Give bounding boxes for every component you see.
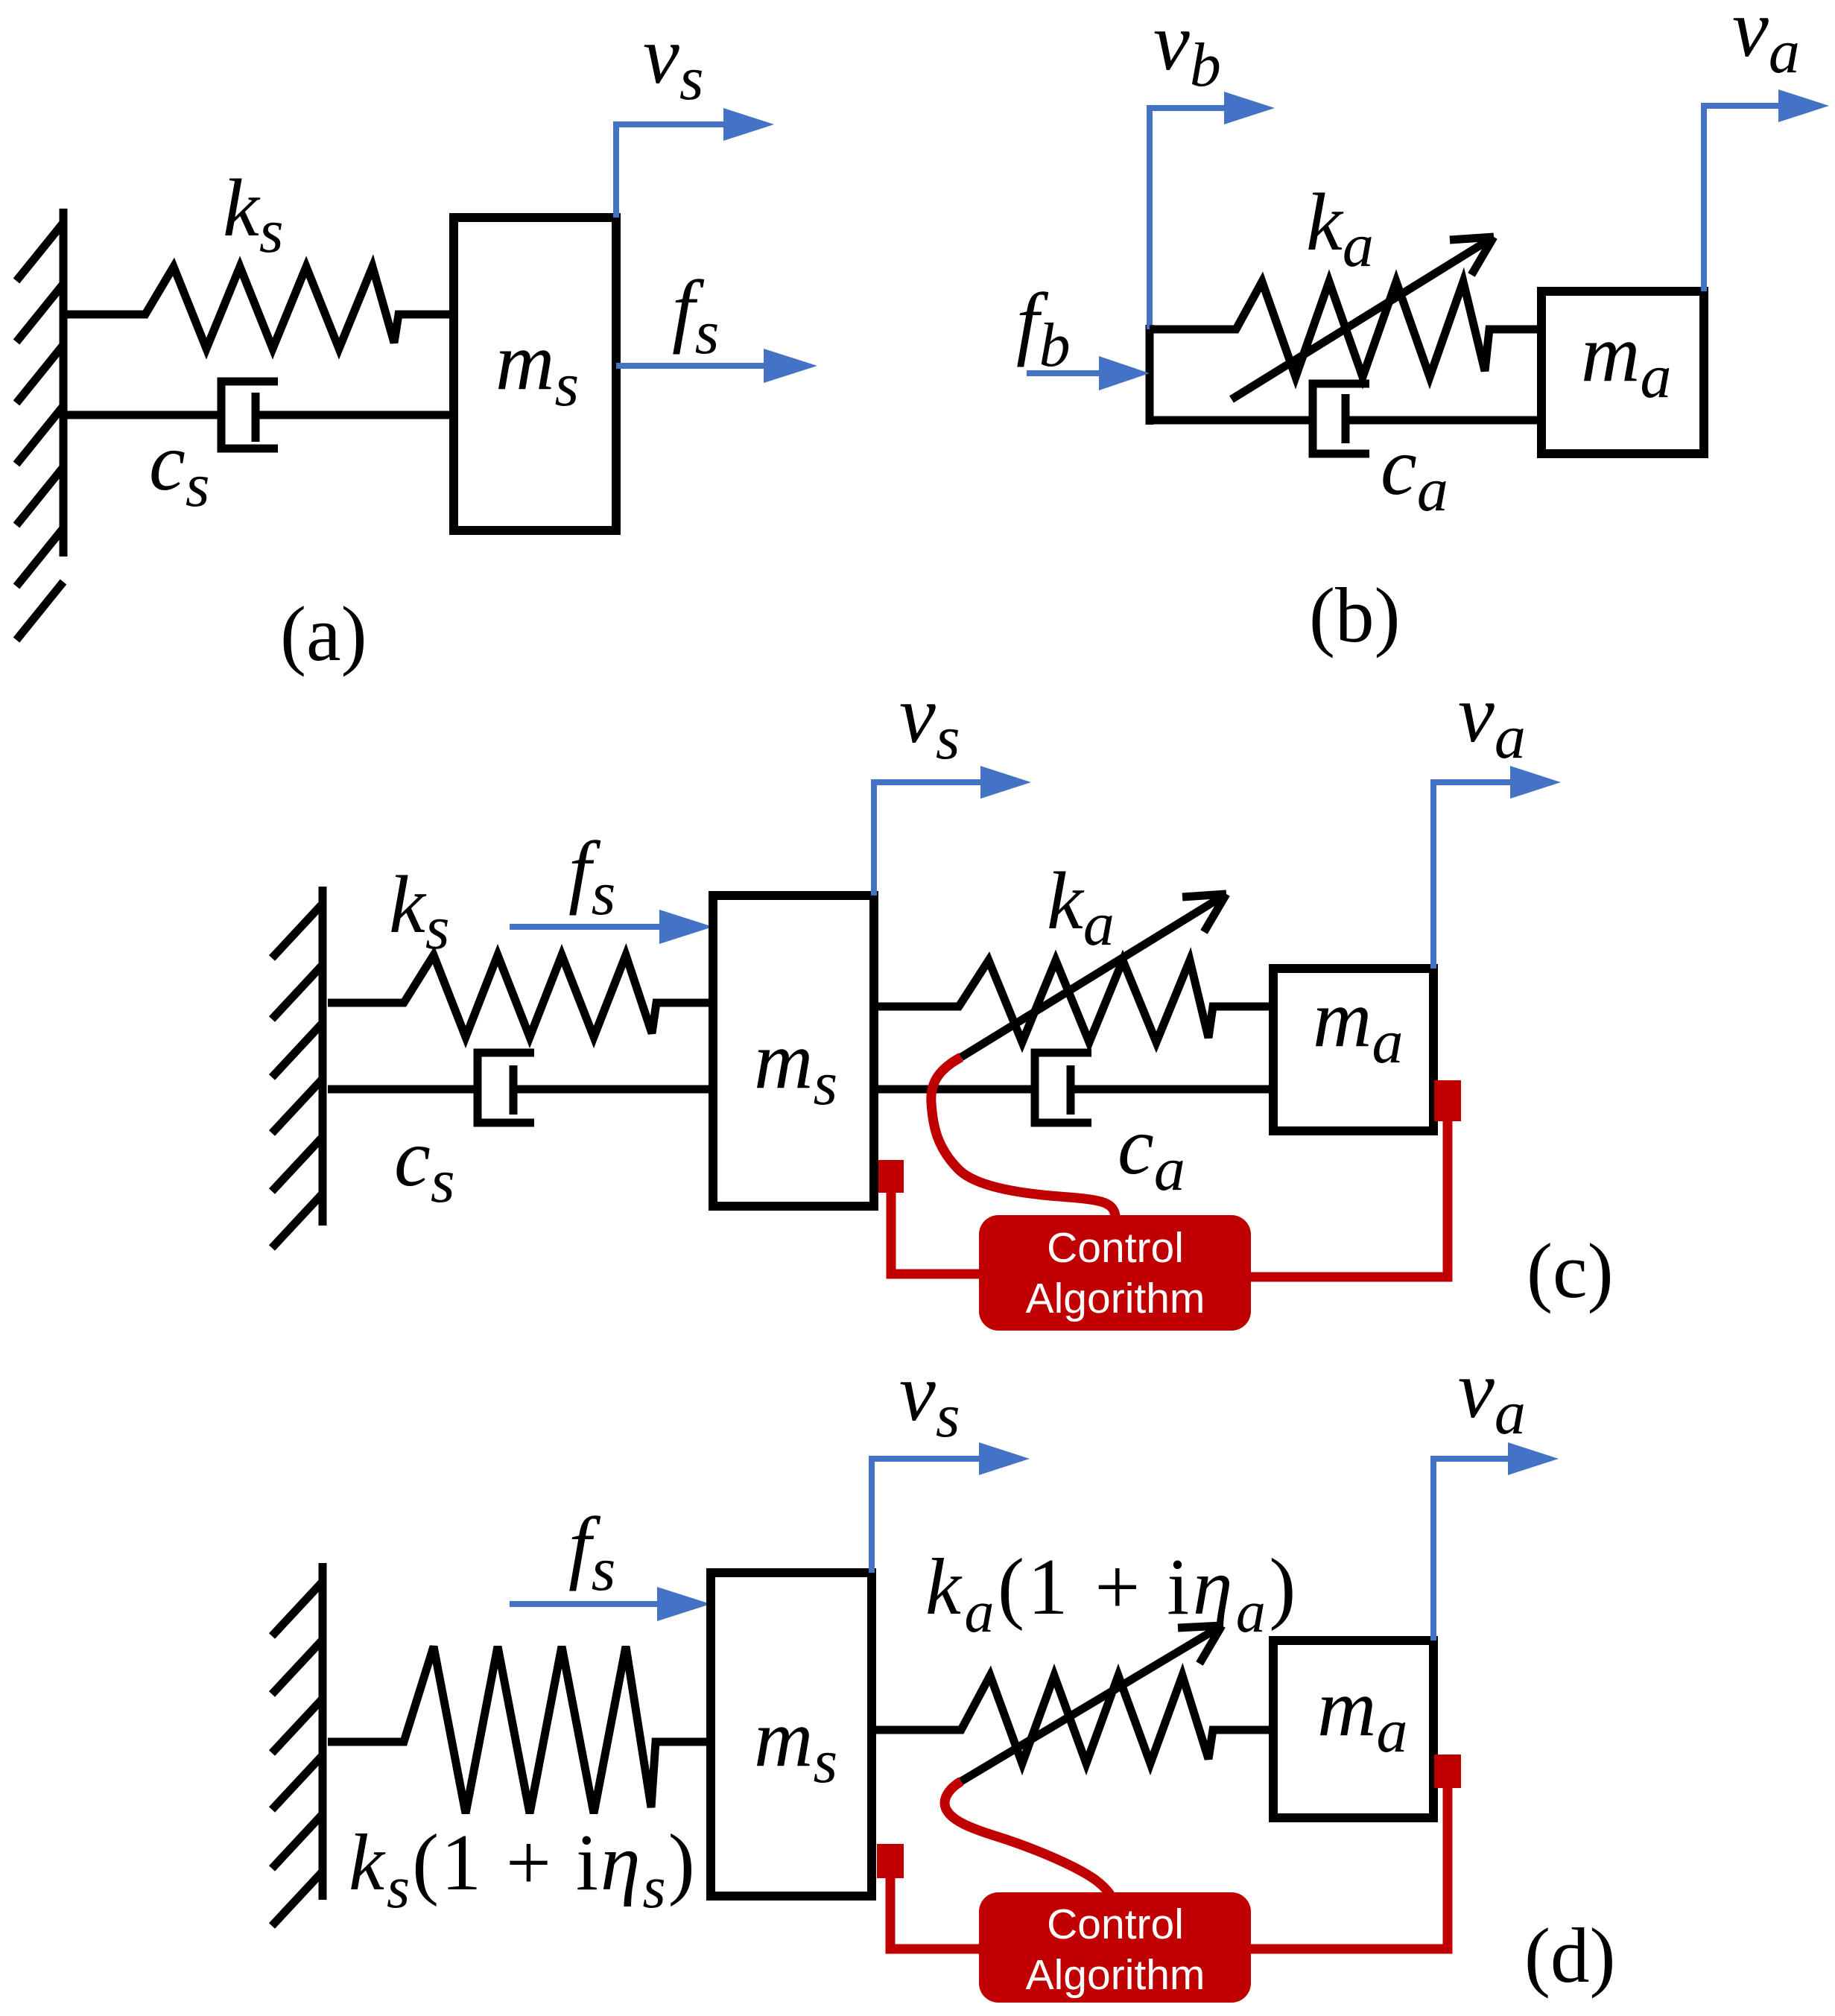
arrow fs (a) bbox=[616, 264, 817, 383]
controller box (d) bbox=[979, 1892, 1251, 2003]
wire ms to controller (d) bbox=[890, 1876, 980, 1949]
mass ma (b) bbox=[1541, 291, 1704, 454]
spring ka (d) bbox=[872, 1676, 1273, 1763]
svg-text:(a): (a) bbox=[280, 590, 367, 677]
svg-text:(b): (b) bbox=[1309, 571, 1400, 659]
svg-text:Algorithm: Algorithm bbox=[1026, 1275, 1205, 1322]
arrow vs (d) bbox=[872, 1347, 1030, 1573]
svg-text:Control: Control bbox=[1047, 1901, 1184, 1948]
sensor tap ms (d) bbox=[877, 1844, 904, 1878]
wall (d) bbox=[272, 1563, 323, 1926]
control wire to spring (c) bbox=[931, 1057, 1115, 1216]
wall (c) bbox=[272, 887, 323, 1248]
spring ks (a) bbox=[67, 267, 454, 349]
spring ks (d) bbox=[328, 1646, 711, 1813]
svg-text:Control: Control bbox=[1047, 1224, 1184, 1272]
mass ms (a) bbox=[454, 218, 616, 530]
svg-text:(c): (c) bbox=[1527, 1227, 1614, 1314]
controller box (c) bbox=[979, 1215, 1251, 1331]
svg-text:(d): (d) bbox=[1524, 1912, 1615, 1999]
mass ma (c) bbox=[1273, 969, 1433, 1131]
wire ma to controller (d) bbox=[1250, 1786, 1448, 1949]
variable arrow (b) bbox=[1232, 237, 1494, 399]
mass ma (d) bbox=[1273, 1641, 1433, 1818]
arrow vs (a) bbox=[616, 10, 774, 218]
variable arrow (c) bbox=[961, 894, 1226, 1057]
svg-text:Algorithm: Algorithm bbox=[1026, 1951, 1205, 1999]
mass ms (c) bbox=[713, 896, 874, 1206]
arrow vs (c) bbox=[874, 669, 1031, 896]
base link (b) bbox=[1146, 325, 1154, 425]
spring ka (c) bbox=[874, 960, 1273, 1042]
damper cs (c) bbox=[328, 1053, 713, 1123]
wall (a) bbox=[16, 209, 63, 640]
wire ms to controller (c) bbox=[891, 1191, 980, 1274]
control wire to spring (d) bbox=[945, 1781, 1114, 1904]
sensor tap ma (d) bbox=[1434, 1755, 1461, 1788]
arrow fs (c) bbox=[510, 825, 713, 944]
arrow va (b) bbox=[1704, 0, 1829, 291]
arrow vb (b) bbox=[1150, 0, 1275, 329]
arrow fs (d) bbox=[510, 1500, 711, 1621]
arrow va (d) bbox=[1433, 1344, 1559, 1641]
damper cs (a) bbox=[67, 381, 454, 448]
damper ca (b) bbox=[1150, 384, 1541, 454]
damper ca (c) bbox=[874, 1053, 1273, 1123]
arrow fb (b) bbox=[1016, 276, 1150, 390]
sensor tap ma (c) bbox=[1434, 1080, 1461, 1121]
wire ma to controller (c) bbox=[1250, 1119, 1448, 1277]
mass ms (d) bbox=[711, 1573, 872, 1896]
spring ks (c) bbox=[328, 955, 713, 1037]
variable arrow (d) bbox=[961, 1626, 1222, 1781]
spring ka (b) bbox=[1150, 282, 1541, 377]
arrow va (c) bbox=[1433, 668, 1561, 969]
sensor tap ms (c) bbox=[878, 1160, 904, 1193]
